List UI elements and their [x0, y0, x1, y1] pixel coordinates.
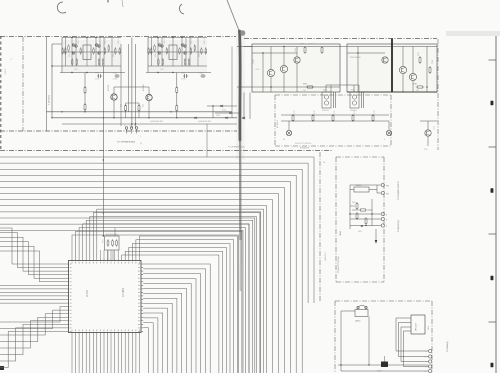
svg-text:SPEAKER TERMINAL: SPEAKER TERMINAL — [337, 256, 340, 273]
svg-text:IC701: IC701 — [85, 290, 89, 297]
svg-text:B: B — [125, 125, 127, 126]
svg-text:4.7/50: 4.7/50 — [113, 79, 118, 81]
svg-text:TO AUDIO(2): TO AUDIO(2) — [397, 220, 400, 232]
svg-text:L1100-12: L1100-12 — [5, 68, 7, 75]
svg-text:DA661: DA661 — [355, 320, 361, 323]
svg-text:D706: D706 — [222, 110, 226, 112]
svg-text:R757: R757 — [354, 110, 356, 114]
svg-text:R704: R704 — [103, 239, 105, 243]
svg-text:PB1: PB1 — [386, 194, 389, 196]
svg-text:D705: D705 — [216, 115, 220, 117]
svg-text:R706 R708 C703: R706 R708 C703 — [106, 234, 118, 236]
svg-text:D661: D661 — [358, 231, 362, 233]
svg-text:C752: C752 — [334, 110, 336, 114]
svg-text:JA661: JA661 — [339, 231, 342, 236]
svg-text:B: B — [130, 125, 132, 126]
svg-text:C753: C753 — [374, 110, 376, 114]
svg-text:R756: R756 — [314, 110, 316, 114]
svg-text:L-CH(1/2): L-CH(1/2) — [49, 95, 51, 105]
svg-text:LC7881: LC7881 — [121, 287, 125, 297]
svg-text:4.7/50: 4.7/50 — [181, 79, 186, 81]
svg-text:TO POWER SUPPLY: TO POWER SUPPLY — [398, 180, 400, 200]
svg-text:UPC1237: UPC1237 — [416, 323, 418, 331]
svg-text:0.22: 0.22 — [143, 104, 145, 107]
svg-text:L: L — [426, 367, 427, 369]
svg-text:TO OPERATION(2): TO OPERATION(2) — [117, 141, 135, 144]
svg-text:PLT6: PLT6 — [424, 149, 428, 151]
svg-text:4558-D5047-6DX: 4558-D5047-6DX — [150, 121, 164, 123]
svg-text:1N4004: 1N4004 — [356, 185, 362, 187]
svg-text:4558-D5047-6DX: 4558-D5047-6DX — [198, 121, 212, 123]
svg-text:SPEAKERS: SPEAKERS — [300, 147, 310, 150]
svg-text:R661: R661 — [352, 202, 356, 204]
svg-text:A TR705: A TR705 — [107, 84, 110, 91]
svg-text:JA66: JA66 — [427, 326, 430, 330]
svg-text:A TR706: A TR706 — [142, 84, 145, 91]
svg-text:SS0P/104: SS0P/104 — [322, 110, 329, 112]
svg-text:AC INLET: AC INLET — [276, 120, 279, 128]
svg-text:F: F — [386, 226, 387, 228]
svg-text:C751: C751 — [294, 110, 296, 114]
svg-text:PB2: PB2 — [386, 186, 389, 188]
svg-text:4.7/50: 4.7/50 — [95, 79, 100, 81]
svg-text:TO MAIN(2): TO MAIN(2) — [446, 341, 449, 352]
svg-text:JU661 C752 100P/100: JU661 C752 100P/100 — [295, 143, 311, 145]
svg-text:B: B — [135, 125, 137, 126]
svg-text:2: 2 — [140, 136, 141, 138]
